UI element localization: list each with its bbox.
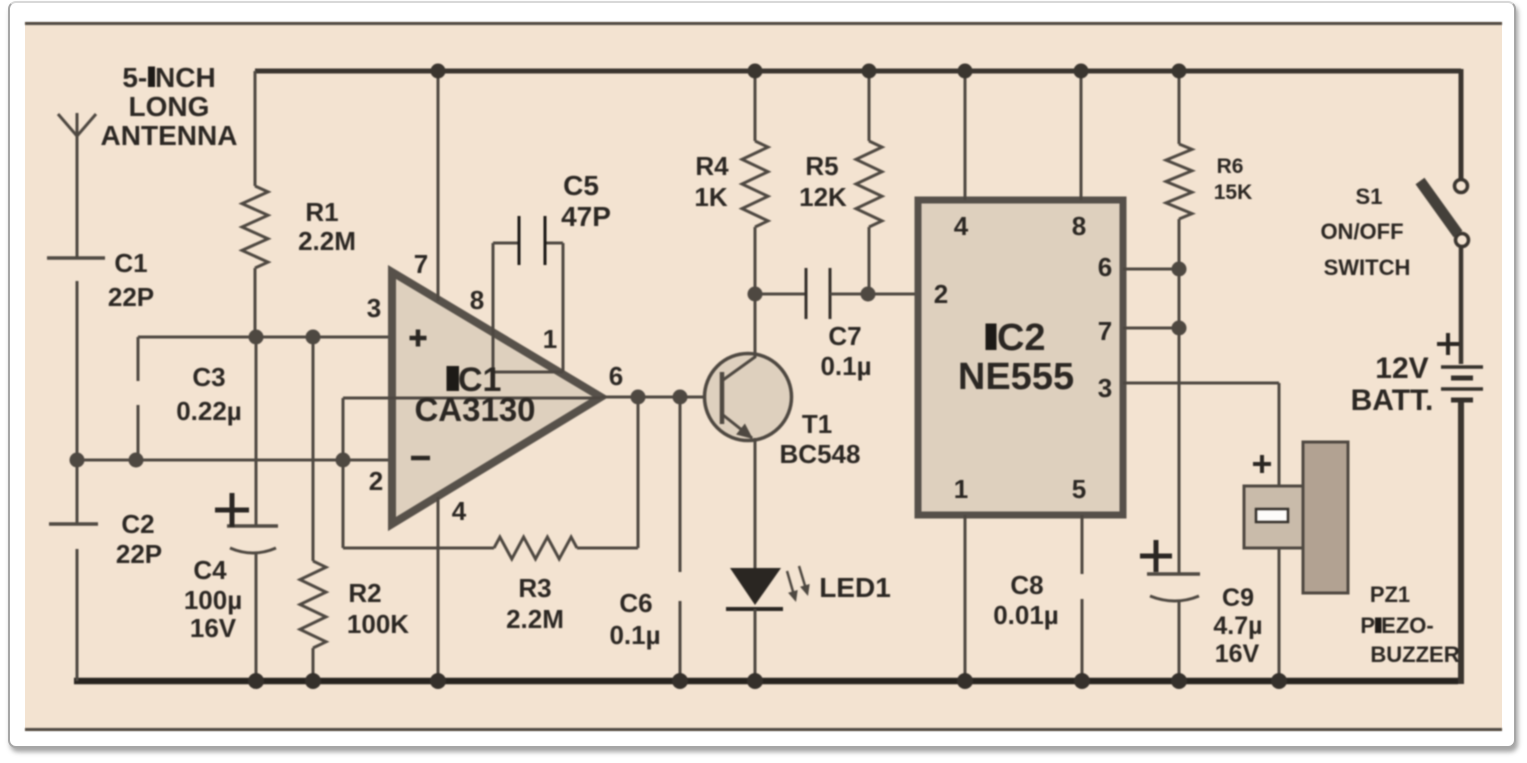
svg-text:C3: C3 [192, 362, 225, 392]
svg-text:C5: C5 [563, 170, 599, 201]
svg-text:4.7µ: 4.7µ [1213, 612, 1262, 640]
svg-text:2: 2 [369, 466, 383, 496]
svg-text:BATT.: BATT. [1351, 384, 1434, 417]
svg-text:15K: 15K [1214, 181, 1253, 204]
svg-text:S1: S1 [1356, 184, 1383, 209]
svg-text:47P: 47P [561, 201, 611, 232]
svg-text:ON/OFF: ON/OFF [1320, 219, 1403, 244]
svg-text:2.2M: 2.2M [506, 604, 564, 634]
svg-text:ANTENNA: ANTENNA [101, 120, 238, 151]
svg-text:4: 4 [452, 496, 467, 526]
svg-text:5: 5 [1072, 474, 1086, 504]
svg-text:PZ1: PZ1 [1370, 582, 1410, 607]
svg-text:7: 7 [414, 249, 428, 279]
svg-text:C4: C4 [193, 555, 227, 585]
svg-text:12V: 12V [1375, 352, 1428, 385]
svg-text:0.01µ: 0.01µ [993, 600, 1059, 630]
svg-text:8: 8 [1072, 211, 1086, 241]
svg-text:1K: 1K [694, 182, 727, 212]
svg-text:16V: 16V [190, 613, 237, 643]
svg-text:22P: 22P [116, 539, 162, 569]
svg-text:LONG: LONG [129, 91, 210, 122]
svg-text:2: 2 [934, 279, 948, 309]
svg-text:R4: R4 [695, 151, 729, 181]
svg-text:C8: C8 [1010, 570, 1043, 600]
svg-text:R3: R3 [518, 573, 551, 603]
svg-text:R2: R2 [348, 578, 381, 608]
svg-text:8: 8 [470, 285, 484, 315]
svg-text:0.1µ: 0.1µ [609, 620, 660, 650]
svg-text:100µ: 100µ [184, 585, 242, 615]
svg-text:2.2M: 2.2M [298, 226, 356, 256]
svg-text:6: 6 [1098, 252, 1112, 282]
svg-text:PIEZO-: PIEZO- [1360, 613, 1433, 638]
svg-text:SWITCH: SWITCH [1324, 255, 1411, 280]
svg-text:C7: C7 [828, 321, 861, 351]
svg-text:R1: R1 [305, 197, 338, 227]
svg-text:3: 3 [1098, 373, 1112, 403]
svg-text:16V: 16V [1215, 640, 1260, 668]
svg-text:7: 7 [1098, 316, 1112, 346]
svg-text:5-INCH: 5-INCH [122, 62, 215, 93]
svg-text:BUZZER: BUZZER [1370, 642, 1459, 667]
svg-text:LED1: LED1 [819, 572, 891, 603]
svg-text:6: 6 [609, 361, 623, 391]
svg-text:BC548: BC548 [780, 439, 861, 469]
svg-text:T1: T1 [802, 409, 832, 439]
svg-text:C6: C6 [619, 588, 652, 618]
svg-text:R5: R5 [805, 151, 838, 181]
svg-text:0.1µ: 0.1µ [820, 351, 871, 381]
svg-text:4: 4 [954, 211, 969, 241]
svg-text:12K: 12K [799, 182, 847, 212]
svg-text:C1: C1 [114, 248, 147, 278]
svg-text:NE555: NE555 [958, 356, 1074, 398]
svg-text:R6: R6 [1217, 155, 1244, 178]
svg-text:1: 1 [543, 324, 557, 354]
svg-text:C9: C9 [1222, 584, 1254, 612]
svg-text:100K: 100K [347, 609, 409, 639]
svg-text:1: 1 [954, 474, 968, 504]
svg-text:0.22µ: 0.22µ [176, 396, 242, 426]
svg-text:3: 3 [367, 293, 381, 323]
svg-text:22P: 22P [108, 282, 154, 312]
svg-text:C2: C2 [121, 509, 154, 539]
